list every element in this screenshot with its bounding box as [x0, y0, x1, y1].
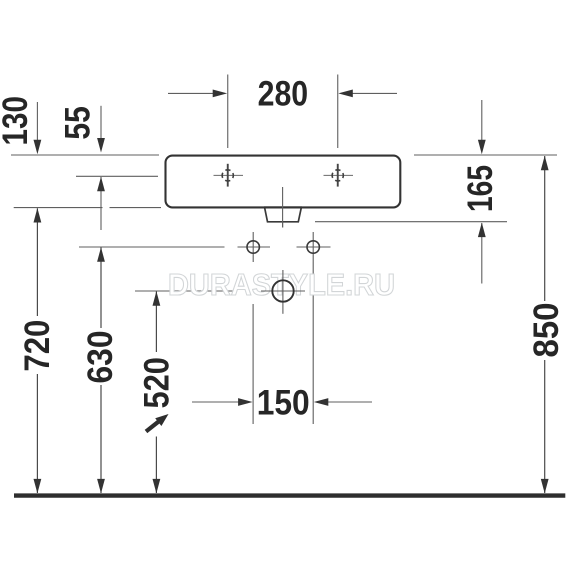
- svg-text:850: 850: [527, 303, 566, 358]
- svg-text:520: 520: [138, 357, 177, 409]
- svg-text:165: 165: [461, 165, 500, 212]
- svg-text:130: 130: [0, 96, 35, 146]
- svg-text:150: 150: [257, 383, 310, 422]
- svg-text:DURASTYLE.RU: DURASTYLE.RU: [168, 267, 395, 302]
- svg-text:280: 280: [258, 75, 309, 114]
- svg-text:55: 55: [58, 106, 97, 139]
- svg-text:720: 720: [18, 320, 57, 372]
- svg-text:630: 630: [81, 331, 120, 384]
